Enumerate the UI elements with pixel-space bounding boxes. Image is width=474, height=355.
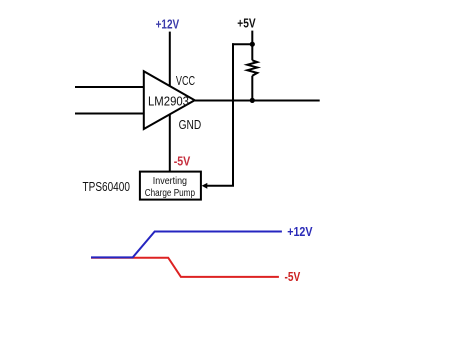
svg-text:TPS60400: TPS60400 xyxy=(83,180,130,194)
svg-text:Inverting: Inverting xyxy=(153,175,187,187)
svg-text:GND: GND xyxy=(179,117,202,132)
svg-text:-5V: -5V xyxy=(285,269,301,284)
svg-text:LM2903: LM2903 xyxy=(148,94,189,109)
svg-text:+5V: +5V xyxy=(237,16,256,31)
svg-text:Charge Pump: Charge Pump xyxy=(145,187,195,199)
svg-text:+12V: +12V xyxy=(156,17,180,32)
svg-text:VCC: VCC xyxy=(176,73,195,88)
svg-text:-5V: -5V xyxy=(174,154,191,169)
svg-text:+12V: +12V xyxy=(287,224,313,239)
